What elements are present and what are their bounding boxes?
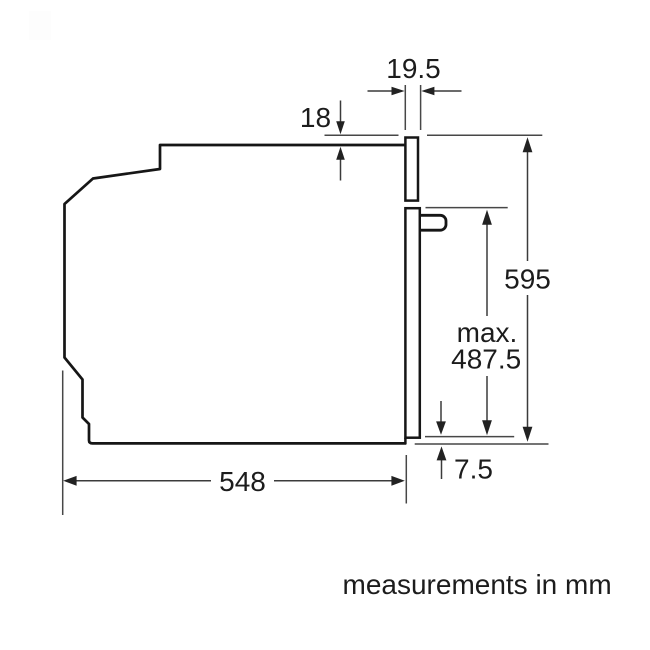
dimension arrow 7.5 down [440, 401, 442, 423]
extension line 7.5 top [425, 436, 514, 438]
front frame foot stub [404, 438, 407, 445]
oven body outline [65, 145, 407, 443]
svg-text:19.5: 19.5 [386, 53, 441, 84]
svg-text:7.5: 7.5 [454, 453, 493, 484]
extension line front-frame top (18 upper reference) [325, 134, 399, 136]
extension line max 487.5 top [426, 207, 508, 209]
dimension arrow 18 up [340, 158, 342, 181]
dimension line 595 upper segment with up arrow [527, 150, 529, 261]
dimension line max 487.5 upper segment with up arrow [486, 222, 488, 316]
dimension arrow 19.5 right [432, 90, 462, 92]
extension line bottom (595 / 7.5 lower reference) [415, 443, 549, 445]
dimension arrow 18 down [340, 101, 342, 124]
dimension line 548 left segment with left arrow [74, 480, 211, 482]
extension line 19.5 left [404, 85, 406, 130]
extension line 19.5 right [420, 85, 422, 130]
front frame lower bar [405, 208, 419, 438]
extension line 548 right [405, 455, 407, 504]
dimension line 548 right segment with right arrow [274, 480, 394, 482]
front frame upper bar [405, 138, 418, 201]
dimension line max 487.5 lower segment with down arrow [486, 376, 488, 423]
dimension arrow 19.5 left [368, 90, 395, 92]
extension line 548 left [62, 371, 64, 516]
svg-text:595: 595 [504, 264, 551, 295]
dimension line 595 lower segment with down arrow [527, 295, 529, 429]
svg-text:measurements in mm: measurements in mm [343, 569, 612, 600]
faint watermark patch top-left [29, 11, 51, 40]
mounting bracket tab [421, 215, 446, 230]
svg-text:18: 18 [300, 102, 331, 133]
svg-text:548: 548 [219, 466, 266, 497]
extension line 595 top [427, 134, 542, 136]
svg-text:487.5: 487.5 [451, 344, 521, 375]
dimension arrow 7.5 up [441, 459, 443, 479]
